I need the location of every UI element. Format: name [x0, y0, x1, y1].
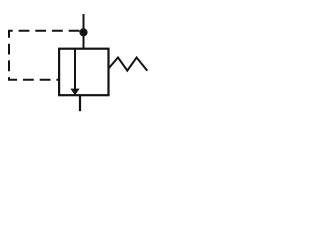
wire: inlet line top: [83, 14, 85, 49]
flow path arrow shaft: [74, 49, 76, 90]
wire: outlet line bottom: [79, 95, 81, 111]
pilot line (dashed): [9, 31, 80, 80]
valve envelope V1 (relief valve body): [59, 49, 108, 95]
flow path arrowhead: [70, 89, 79, 96]
node: junction dot: [79, 28, 87, 36]
spring: [109, 58, 148, 71]
